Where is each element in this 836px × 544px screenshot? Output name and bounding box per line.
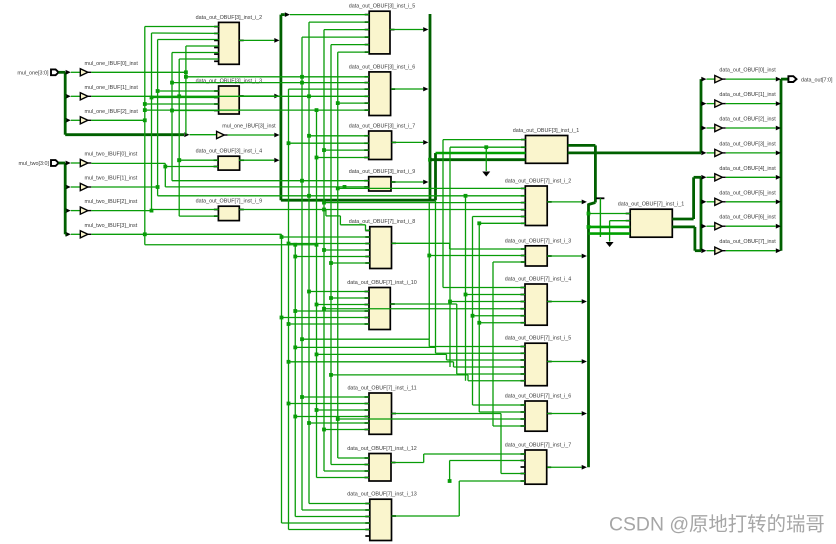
LUT data_out_OBUF[3]_inst_i_3 — [219, 86, 240, 114]
wire to i_13[7] pin — [302, 509, 370, 511]
LUT data_out_OBUF[3]_inst_i_7 — [369, 131, 392, 160]
wire i_3[7] output — [547, 255, 582, 257]
bus tap arrow mul_two IBUF — [66, 185, 71, 190]
buffer mul_two_IBUF[1]_inst — [80, 183, 88, 190]
wire long run to i_5[7] pin3 — [315, 353, 319, 357]
wire mul_one_IBUF[0] out — [91, 71, 186, 73]
wire to i_3[3] pin2 — [150, 96, 154, 100]
wire run y157.5 to i_7 pin4 — [315, 156, 319, 160]
wire i_4[3] output — [239, 159, 274, 161]
net v2 x450 — [449, 147, 451, 367]
wire mul_one_IBUF[1] out — [91, 95, 179, 97]
net vertical x151.5 — [151, 33, 153, 211]
LUT data_out_OBUF[7]_inst_i_10 — [369, 288, 390, 330]
svg-text:mul_one_IBUF[1]_inst: mul_one_IBUF[1]_inst — [85, 85, 139, 91]
wire to i_5[3] pin2 — [309, 21, 369, 23]
svg-text:data_out_OBUF[3]_inst_i_7: data_out_OBUF[3]_inst_i_7 — [349, 124, 416, 130]
bus trunk vertical x435 up — [434, 153, 437, 200]
LUT data_out_OBUF[7]_inst_i_4 — [525, 284, 547, 325]
bus tap arrow mul_one IBUF — [66, 70, 71, 75]
wire to i_5[3] pin3 — [324, 29, 369, 31]
wire i_11[7] output route — [392, 413, 502, 415]
wire to i_10[7] pin — [315, 303, 319, 307]
wire to i_4[7] pin6 — [477, 321, 481, 325]
bus mul_two vertical trunk — [64, 163, 67, 234]
svg-text:data_out_OBUF[3]_inst_i_1: data_out_OBUF[3]_inst_i_1 — [513, 128, 580, 134]
wire to i_1[3] pin1 — [443, 139, 526, 141]
wire long run to i_2[7] pin3 — [322, 201, 326, 205]
wire i_2[7] output — [547, 201, 582, 203]
bus OBUF input vertical upper — [700, 79, 703, 153]
wire to i_8[7] pin — [287, 242, 291, 246]
buffer mul_two_IBUF[2]_inst — [80, 207, 88, 214]
svg-text:data_out_OBUF[7]_inst: data_out_OBUF[7]_inst — [719, 239, 776, 245]
wire to i_8[7] pin — [293, 255, 297, 259]
net ladder x288.5 — [288, 89, 290, 529]
bus mul_one branch to IBUF[3] — [65, 133, 184, 136]
bus i_1[7] output2 route down — [672, 225, 695, 228]
net stub down-arrow near i_1[3] — [484, 145, 488, 149]
net ladder x316.5 — [316, 110, 318, 477]
net vertical x157.6 — [157, 40, 159, 196]
net v2 x501 — [500, 414, 502, 474]
LUT data_out_OBUF[7]_inst_i_5 — [525, 343, 547, 386]
buffer data_out_OBUF[3]_inst — [701, 151, 706, 156]
svg-text:data_out_OBUF[3]_inst_i_6: data_out_OBUF[3]_inst_i_6 — [349, 64, 416, 70]
wire to i_3[7] pin3 — [493, 261, 525, 263]
bus tap arrow mul_one IBUF — [66, 94, 71, 99]
wire to i_11[7] pin — [300, 395, 304, 399]
svg-text:mul_two_IBUF[2]_inst: mul_two_IBUF[2]_inst — [85, 199, 138, 205]
wire to i_1[3] pin2 — [450, 146, 526, 148]
svg-text:mul_one[3:0]: mul_one[3:0] — [17, 70, 49, 76]
LUT data_out_OBUF[7]_inst_i_3 — [525, 246, 547, 266]
wire i_3[3] output — [239, 95, 274, 97]
wire i_10[7] output route — [390, 303, 456, 305]
wire to i_10[7] pin — [287, 322, 291, 326]
wire to i_13[7] pin — [309, 503, 370, 505]
wire to i_8[7] pin — [322, 248, 326, 252]
wire long run to i_2[7] pin2 — [158, 195, 526, 197]
LUT data_out_OBUF[3]_inst_i_4 — [218, 156, 240, 170]
svg-text:data_out_OBUF[3]_inst_i_3: data_out_OBUF[3]_inst_i_3 — [196, 79, 263, 85]
wire stepped branch down to i_8[7] pin1 — [325, 210, 327, 216]
wire to i_5[3] pin4 — [302, 36, 369, 38]
buffer mul_one_IBUF[0]_inst — [80, 69, 88, 76]
LUT data_out_OBUF[7]_inst_i_13 — [370, 499, 392, 540]
buffer data_out_OBUF[4]_inst — [701, 175, 706, 180]
wire to i_12[7] pin — [317, 477, 370, 479]
bus branch y159.7 to i_1[3] — [428, 158, 432, 162]
wire long run to i_4[7] pin4 — [322, 307, 326, 311]
wire long run to i_5[7] pin1 — [300, 337, 304, 341]
bus branch to i_1[7] pin3 — [587, 225, 591, 229]
wire to i_12[7] pin — [331, 464, 369, 466]
wire to i_13[7] pin — [289, 529, 370, 531]
bus trunk vertical x281 — [279, 15, 282, 201]
wire to i_8[7] pin — [280, 235, 284, 239]
wire i_13[7] output route — [392, 515, 460, 517]
svg-text:CSDN @原地打转的瑞哥: CSDN @原地打转的瑞哥 — [609, 514, 825, 536]
svg-text:data_out[7:0]: data_out[7:0] — [801, 77, 833, 83]
wire to i_11[7] pin — [307, 421, 311, 425]
power vcc T symbol — [596, 197, 604, 199]
output port data_out[7:0] — [781, 78, 788, 81]
wire i_8[7] output route — [392, 242, 450, 244]
net v2 x443 — [442, 140, 444, 288]
wire to i_11[7] pin — [322, 428, 326, 432]
wire to i_10[7] pin — [293, 309, 297, 313]
net vertical x435.5 below bus corner — [435, 200, 437, 347]
wire to i_2[3] pin6 — [179, 58, 218, 60]
net v2 x472.5 — [472, 217, 474, 406]
bus tap arrow mul_two IBUF — [66, 232, 71, 237]
bus trunk to i_1[3] pin — [436, 152, 526, 155]
svg-text:data_out_OBUF[7]_inst_i_5: data_out_OBUF[7]_inst_i_5 — [505, 336, 572, 342]
net v2 x493 — [492, 262, 494, 426]
wire run y103.1 to i_6 pin5 — [336, 101, 340, 105]
bus trunk vertical x430 — [429, 14, 432, 200]
wire long run to i_5[7] pin2 — [293, 346, 297, 350]
wire to i_10[7] pin — [329, 296, 333, 300]
buffer data_out_OBUF[5]_inst — [701, 199, 706, 204]
LUT data_out_OBUF[3]_inst_i_1 — [526, 136, 568, 164]
wire to i_10[7] pin — [307, 290, 311, 294]
buffer mul_two_IBUF[0]_inst — [80, 159, 88, 166]
LUT data_out_OBUF[7]_inst_i_6 — [525, 401, 547, 431]
svg-text:data_out_OBUF[6]_inst: data_out_OBUF[6]_inst — [719, 215, 776, 221]
wire OBUF[5] output — [726, 201, 776, 203]
net v2 x479.25 — [478, 223, 480, 412]
svg-text:data_out_OBUF[1]_inst: data_out_OBUF[1]_inst — [719, 92, 776, 98]
svg-text:data_out_OBUF[7]_inst_i_4: data_out_OBUF[7]_inst_i_4 — [505, 277, 572, 283]
wire to i_11[7] pin — [293, 415, 297, 419]
wire to i_2[7] pin6 — [477, 221, 481, 225]
svg-text:data_out_OBUF[3]_inst_i_2: data_out_OBUF[3]_inst_i_2 — [196, 15, 263, 21]
wire to i_5[3] pin5 — [331, 44, 369, 46]
net ladder x324 — [323, 30, 325, 471]
wire run y135.8 to i_7 pin1 — [307, 134, 311, 138]
svg-text:data_out_OBUF[7]_inst_i_11: data_out_OBUF[7]_inst_i_11 — [347, 386, 416, 392]
wire OBUF[2] output — [726, 127, 776, 129]
wire to i_6[7] pin1 — [473, 404, 526, 406]
svg-text:data_out_OBUF[7]_inst_i_9: data_out_OBUF[7]_inst_i_9 — [196, 199, 263, 205]
wire to i_2[7] pin5 — [473, 216, 526, 218]
net ladder x302 — [301, 37, 303, 510]
svg-text:data_out_OBUF[3]_inst_i_9: data_out_OBUF[3]_inst_i_9 — [349, 169, 416, 175]
bus OBUF input vertical lower — [700, 177, 703, 250]
wire run y150.1 to i_7 pin3 — [322, 148, 326, 152]
bus mul_one vertical trunk — [64, 72, 67, 134]
buffer mul_two_IBUF[3]_inst — [80, 231, 88, 238]
svg-text:data_out_OBUF[7]_inst_i_1: data_out_OBUF[7]_inst_i_1 — [618, 202, 685, 208]
wire to i_9[7] pin2 — [179, 215, 218, 217]
bus OBUF output vertical — [780, 79, 783, 251]
svg-text:data_out_OBUF[3]_inst_i_4: data_out_OBUF[3]_inst_i_4 — [196, 149, 263, 155]
buffer data_out_OBUF[1]_inst — [701, 101, 706, 106]
net ladder x331 — [330, 45, 332, 465]
svg-text:mul_one_IBUF[0]_inst: mul_one_IBUF[0]_inst — [85, 61, 139, 67]
LUT data_out_OBUF[7]_inst_i_7 — [525, 450, 547, 484]
wire to i_10[7] pin — [280, 316, 284, 320]
wire OBUF[4] output — [726, 176, 776, 178]
wire i_4[7] output — [547, 301, 582, 303]
LUT data_out_OBUF[3]_inst_i_9 — [369, 177, 391, 191]
wire OBUF[1] output — [726, 103, 776, 105]
buffer mul_one_IBUF[2]_inst — [80, 117, 88, 124]
wire mul_one_IBUF[3] output — [228, 134, 275, 136]
wire to i_11[7] pin — [287, 402, 291, 406]
wire run y244.75 — [145, 244, 317, 246]
net v2 x465.5 — [465, 196, 467, 381]
wire i_6[7] output — [547, 413, 582, 415]
wire to i_4[7] pin1 — [443, 287, 525, 289]
svg-text:mul_two_IBUF[0]_inst: mul_two_IBUF[0]_inst — [85, 152, 138, 158]
wire to i_5[3] pin6 — [338, 51, 369, 53]
svg-text:mul_two[3:0]: mul_two[3:0] — [18, 161, 49, 167]
svg-text:data_out_OBUF[7]_inst_i_13: data_out_OBUF[7]_inst_i_13 — [347, 492, 417, 498]
bus tap arrow mul_two IBUF — [66, 208, 71, 213]
LUT data_out_OBUF[7]_inst_i_9 — [218, 206, 239, 220]
bus tap arrow mul_one IBUF — [66, 118, 71, 123]
bus trunk horizontal y200 — [281, 199, 436, 202]
wire long run to i_2[7] pin1 — [336, 187, 340, 191]
wire mul_one_IBUF[2] out — [91, 119, 145, 121]
net mul_one_IBUF[0] vertical x185.9 — [185, 46, 187, 135]
wire gnd stub with down arrow — [609, 221, 611, 242]
wire to i_13[7] pin — [282, 522, 370, 524]
bus trunk vertical x595 right column — [594, 145, 597, 202]
svg-text:data_out_OBUF[0]_inst: data_out_OBUF[0]_inst — [719, 68, 776, 74]
wire OBUF[3] output — [726, 152, 776, 154]
wire i_5[7] output — [547, 361, 582, 363]
buffer data_out_OBUF[7]_inst — [701, 248, 706, 253]
wire run y76.8 to i_6 pin1 — [184, 75, 188, 79]
wire to i_1[7] pin1 from trunk — [587, 212, 591, 216]
LUT data_out_OBUF[7]_inst_i_2 — [525, 186, 547, 226]
svg-text:data_out_OBUF[4]_inst: data_out_OBUF[4]_inst — [719, 166, 776, 172]
LUT data_out_OBUF[7]_inst_i_12 — [369, 454, 391, 482]
wire mul_two_IBUF[1] out — [91, 186, 157, 188]
bus i_1[3] second output to OBUF bus — [568, 151, 701, 154]
svg-text:data_out_OBUF[7]_inst_i_2: data_out_OBUF[7]_inst_i_2 — [505, 179, 572, 185]
bus tap arrow mul_two IBUF — [66, 161, 71, 166]
net v2 x429 — [428, 202, 430, 339]
wire mul_two_IBUF[0] out — [91, 162, 165, 164]
wire i_7[3] output — [392, 141, 424, 143]
wire to i_4[7] pin2 — [464, 293, 468, 297]
wire OBUF[0] output — [726, 78, 776, 80]
wire long run to i_5[7] pin4 — [287, 360, 291, 364]
buffer data_out_OBUF[0]_inst — [701, 77, 706, 82]
svg-text:data_out_OBUF[7]_inst_i_7: data_out_OBUF[7]_inst_i_7 — [505, 443, 572, 449]
wire mul_two_IBUF[3] out — [91, 233, 145, 235]
net vertical x172 — [171, 53, 173, 181]
wire to i_12[7] pin — [324, 470, 369, 472]
net vertical x179.2 — [178, 59, 180, 216]
wire to i_9[3] pin2 — [165, 186, 368, 188]
wire i_12[7] output route to i_7[7] pin1 — [391, 462, 424, 464]
wire long run to i_6[7] pin3 — [336, 417, 340, 421]
wire OBUF[7] output — [726, 250, 776, 252]
svg-text:data_out_OBUF[5]_inst: data_out_OBUF[5]_inst — [719, 190, 776, 196]
wire to i_3[3] pin4 — [170, 109, 174, 113]
wire to i_6[7] pin2 — [479, 411, 525, 413]
wire i_7[7] output — [547, 466, 582, 468]
net ladder x309 — [308, 22, 310, 503]
net ladder x281.5 — [281, 234, 283, 523]
wire to i_2[3] pin2 — [152, 32, 219, 34]
svg-text:mul_one_IBUF[3]_inst: mul_one_IBUF[3]_inst — [222, 124, 276, 130]
LUT data_out_OBUF[7]_inst_i_11 — [369, 393, 392, 434]
wire i_6[3] output — [391, 88, 423, 90]
wire mul_two_IBUF[2] out — [91, 210, 151, 212]
wire run y82.6 to i_6 pin2 — [170, 81, 174, 85]
wire to i_8[7] pin — [329, 261, 333, 265]
svg-text:data_out_OBUF[7]_inst_i_12: data_out_OBUF[7]_inst_i_12 — [347, 446, 417, 452]
LUT data_out_OBUF[7]_inst_i_1 — [630, 209, 672, 237]
wire to i_4[7] pin5 — [471, 314, 475, 318]
wire to i_2[3] pin3 — [158, 39, 219, 41]
wire to i_7[3] pin2 — [287, 141, 291, 145]
svg-text:data_out_OBUF[7]_inst_i_10: data_out_OBUF[7]_inst_i_10 — [347, 280, 417, 286]
wire i_9[3] output — [391, 181, 423, 183]
net ladder x295.25 — [294, 245, 296, 517]
svg-text:mul_two_IBUF[1]_inst: mul_two_IBUF[1]_inst — [85, 176, 138, 182]
wire run y110.1 to i_6 pin6 — [143, 108, 147, 112]
bus branch to i_1[7] pin4 — [589, 232, 631, 235]
net mul_one_IBUF[2] vertical x144.8 — [144, 27, 146, 245]
svg-text:mul_two_IBUF[3]_inst: mul_two_IBUF[3]_inst — [85, 223, 138, 229]
wire i_5[3] output — [390, 29, 423, 31]
svg-text:data_out_OBUF[7]_inst_i_3: data_out_OBUF[7]_inst_i_3 — [505, 238, 572, 244]
wire to i_6[7] pin4 — [493, 425, 525, 427]
svg-text:data_out_OBUF[3]_inst: data_out_OBUF[3]_inst — [719, 141, 776, 147]
bus trunk top branch to i_5 — [285, 12, 290, 17]
wire to i_9[3] pin1 — [172, 180, 369, 182]
wire to i_11[7] pin — [315, 408, 319, 412]
LUT data_out_OBUF[3]_inst_i_2 — [219, 22, 240, 64]
wire OBUF[6] output — [726, 225, 776, 227]
svg-text:data_out_OBUF[7]_inst_i_6: data_out_OBUF[7]_inst_i_6 — [505, 394, 572, 400]
wire to i_13[7] pin — [295, 516, 370, 518]
LUT data_out_OBUF[7]_inst_i_8 — [370, 227, 392, 269]
LUT data_out_OBUF[3]_inst_i_6 — [369, 72, 391, 116]
wire to i_2[3] pin1 — [145, 26, 219, 28]
wire to i_3[3] pin1 — [156, 89, 160, 93]
wire to i_7[7] pin2 — [450, 460, 525, 462]
buffer mul_one_IBUF[1]_inst — [80, 93, 88, 100]
wire to i_12[7] pin — [338, 457, 369, 459]
buffer data_out_OBUF[6]_inst — [701, 224, 706, 229]
wire i_2[3] output — [239, 39, 274, 41]
wire to i_6[3] pin3 — [289, 88, 370, 90]
wire long run to i_5[7] pin6 — [329, 373, 333, 377]
LUT data_out_OBUF[3]_inst_i_5 — [369, 11, 390, 54]
wire to i_2[3] pin5 — [172, 52, 219, 54]
svg-text:mul_one_IBUF[2]_inst: mul_one_IBUF[2]_inst — [85, 109, 139, 115]
buffer mul_one_IBUF[3]_inst — [217, 131, 225, 138]
bus i_1[7] output1 route up — [672, 218, 693, 221]
net ladder x337.75 — [337, 52, 339, 458]
wire to i_3[3] pin3 — [143, 102, 147, 106]
wire i_9[7] output run to i_2[7] pin4 — [239, 209, 525, 211]
wire to i_3[7] pin2 — [427, 254, 431, 258]
wire to i_4[7] pin3 — [448, 300, 452, 304]
buffer data_out_OBUF[2]_inst — [701, 126, 706, 131]
svg-text:data_out_OBUF[2]_inst: data_out_OBUF[2]_inst — [719, 117, 776, 123]
wire to i_2[3] pin4 — [186, 45, 219, 47]
wire i_1[3] output O — [568, 144, 596, 147]
svg-text:data_out_OBUF[3]_inst_i_5: data_out_OBUF[3]_inst_i_5 — [349, 4, 416, 10]
wire to i_4[3] pin1 — [177, 158, 181, 162]
